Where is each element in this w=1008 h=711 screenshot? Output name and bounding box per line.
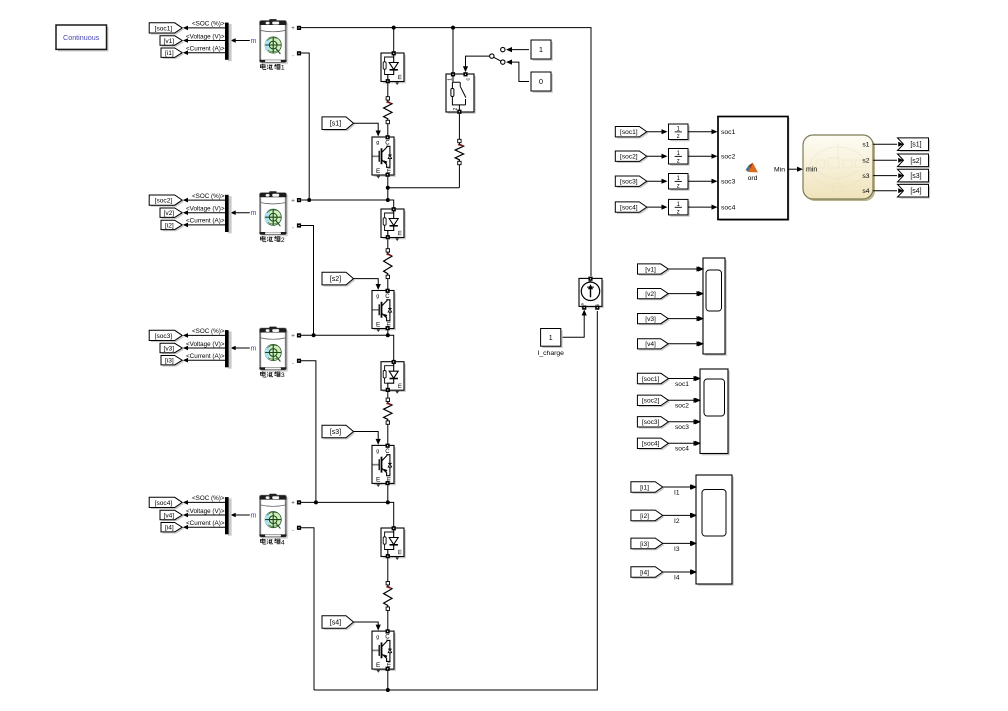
svg-text:g: g <box>376 634 379 640</box>
svg-text:+: + <box>291 333 295 340</box>
svg-text:z: z <box>677 184 680 190</box>
svg-text:[soc2]: [soc2] <box>620 154 638 161</box>
svg-text:[soc1]: [soc1] <box>642 376 660 383</box>
svg-text:3: 3 <box>281 372 285 379</box>
svg-text:[i3]: [i3] <box>165 358 174 365</box>
svg-text:z: z <box>677 159 680 165</box>
svg-text:<Current (A)>: <Current (A)> <box>186 353 225 360</box>
svg-text:[v1]: [v1] <box>164 38 175 45</box>
svg-text:[soc3]: [soc3] <box>620 179 638 186</box>
svg-text:[s2]: [s2] <box>330 276 341 283</box>
svg-text:[s1]: [s1] <box>330 121 341 128</box>
svg-text:[soc4]: [soc4] <box>620 204 638 211</box>
svg-text:[v3]: [v3] <box>645 316 656 323</box>
svg-text:1: 1 <box>281 65 285 72</box>
svg-text:[soc3]: [soc3] <box>642 419 660 426</box>
svg-text:C: C <box>385 141 390 147</box>
svg-text:[s4]: [s4] <box>910 188 921 195</box>
svg-text:[soc2]: [soc2] <box>155 197 173 204</box>
svg-text:[v2]: [v2] <box>164 210 175 217</box>
svg-text:[soc2]: [soc2] <box>642 398 660 405</box>
svg-text:ord: ord <box>748 175 758 182</box>
svg-text:s4: s4 <box>862 188 869 195</box>
svg-text:soc4: soc4 <box>675 446 689 453</box>
svg-text:+: + <box>291 197 295 204</box>
svg-text:<Voltage (V)>: <Voltage (V)> <box>186 341 225 348</box>
svg-text:m: m <box>398 231 404 236</box>
svg-text:soc1: soc1 <box>721 129 736 136</box>
svg-text:<SOC (%)>: <SOC (%)> <box>192 21 225 28</box>
svg-text:C: C <box>385 449 390 455</box>
svg-text:+: + <box>291 25 295 32</box>
svg-text:I4: I4 <box>674 575 680 582</box>
svg-text:C: C <box>385 635 390 641</box>
svg-text:<Current (A)>: <Current (A)> <box>186 218 225 225</box>
svg-text:soc3: soc3 <box>721 179 736 186</box>
svg-text:g: g <box>376 449 379 455</box>
svg-text:<Voltage (V)>: <Voltage (V)> <box>186 33 225 40</box>
svg-text:s1: s1 <box>862 142 869 149</box>
svg-text:[i3]: [i3] <box>640 541 649 548</box>
svg-text:[i1]: [i1] <box>640 484 649 491</box>
svg-text:m: m <box>398 383 404 388</box>
svg-text:[i2]: [i2] <box>165 222 174 229</box>
svg-text:[s4]: [s4] <box>330 620 341 627</box>
svg-text:I3: I3 <box>674 546 680 553</box>
svg-text:<Voltage (V)>: <Voltage (V)> <box>186 508 225 515</box>
svg-text:soc4: soc4 <box>721 205 736 212</box>
svg-text:I_charge: I_charge <box>537 350 564 357</box>
svg-text:i: i <box>595 304 600 305</box>
svg-text:m: m <box>398 550 404 555</box>
svg-text:E: E <box>376 476 380 483</box>
svg-text:[s1]: [s1] <box>910 142 921 149</box>
svg-text:[s3]: [s3] <box>910 173 921 180</box>
svg-text:[i2]: [i2] <box>640 513 649 520</box>
svg-text:0: 0 <box>539 77 543 86</box>
svg-text:<Voltage (V)>: <Voltage (V)> <box>186 206 225 213</box>
svg-text:[i4]: [i4] <box>165 525 174 532</box>
svg-text:soc2: soc2 <box>721 154 736 161</box>
svg-text:[i4]: [i4] <box>640 569 649 576</box>
svg-text:m: m <box>398 75 404 80</box>
svg-text:1: 1 <box>539 45 543 54</box>
svg-text:soc3: soc3 <box>675 424 689 431</box>
svg-text:[v4]: [v4] <box>645 341 656 348</box>
svg-text:soc2: soc2 <box>675 403 689 410</box>
svg-text:E: E <box>376 168 380 175</box>
svg-text:1: 1 <box>549 335 553 342</box>
svg-text:[i1]: [i1] <box>165 50 174 57</box>
svg-text:soc1: soc1 <box>675 381 689 388</box>
svg-text:m: m <box>387 477 393 482</box>
svg-text:min: min <box>806 167 817 174</box>
svg-text:[v1]: [v1] <box>645 266 656 273</box>
svg-text:[v4]: [v4] <box>164 512 175 519</box>
svg-text:<Current (A)>: <Current (A)> <box>186 520 225 527</box>
svg-text:m: m <box>250 512 256 519</box>
svg-text:m: m <box>250 345 256 352</box>
svg-text:[v3]: [v3] <box>164 345 175 352</box>
svg-text:m: m <box>250 210 256 217</box>
svg-text:[soc4]: [soc4] <box>155 500 173 507</box>
svg-text:[s3]: [s3] <box>330 429 341 436</box>
svg-text:[v2]: [v2] <box>645 291 656 298</box>
svg-text:z: z <box>677 134 680 140</box>
svg-text:Min: Min <box>774 166 785 173</box>
svg-text:E: E <box>376 662 380 669</box>
svg-text:z: z <box>677 210 680 216</box>
svg-text:I2: I2 <box>674 518 680 525</box>
svg-text:m: m <box>387 662 393 667</box>
svg-text:[soc3]: [soc3] <box>155 333 173 340</box>
svg-text:C: C <box>385 294 390 300</box>
svg-text:m: m <box>387 168 393 173</box>
svg-text:[soc4]: [soc4] <box>642 441 660 448</box>
svg-text:[soc1]: [soc1] <box>620 129 638 136</box>
svg-text:[soc1]: [soc1] <box>155 25 173 32</box>
svg-text:s2: s2 <box>862 158 869 165</box>
svg-text:<SOC (%)>: <SOC (%)> <box>192 193 225 200</box>
svg-text:g: g <box>376 140 379 146</box>
svg-text:Continuous: Continuous <box>63 33 100 42</box>
svg-text:[s2]: [s2] <box>910 158 921 165</box>
svg-text:2: 2 <box>281 237 285 244</box>
svg-text:g: g <box>376 294 379 300</box>
svg-text:m: m <box>387 322 393 327</box>
svg-text:I1: I1 <box>674 490 680 497</box>
svg-text:<SOC (%)>: <SOC (%)> <box>192 328 225 335</box>
svg-text:<Current (A)>: <Current (A)> <box>186 46 225 53</box>
svg-text:+: + <box>291 500 295 507</box>
svg-text:m: m <box>250 38 256 45</box>
svg-text:4: 4 <box>281 539 285 546</box>
svg-text:<SOC (%)>: <SOC (%)> <box>192 495 225 502</box>
svg-text:E: E <box>376 322 380 329</box>
svg-text:s3: s3 <box>862 173 869 180</box>
